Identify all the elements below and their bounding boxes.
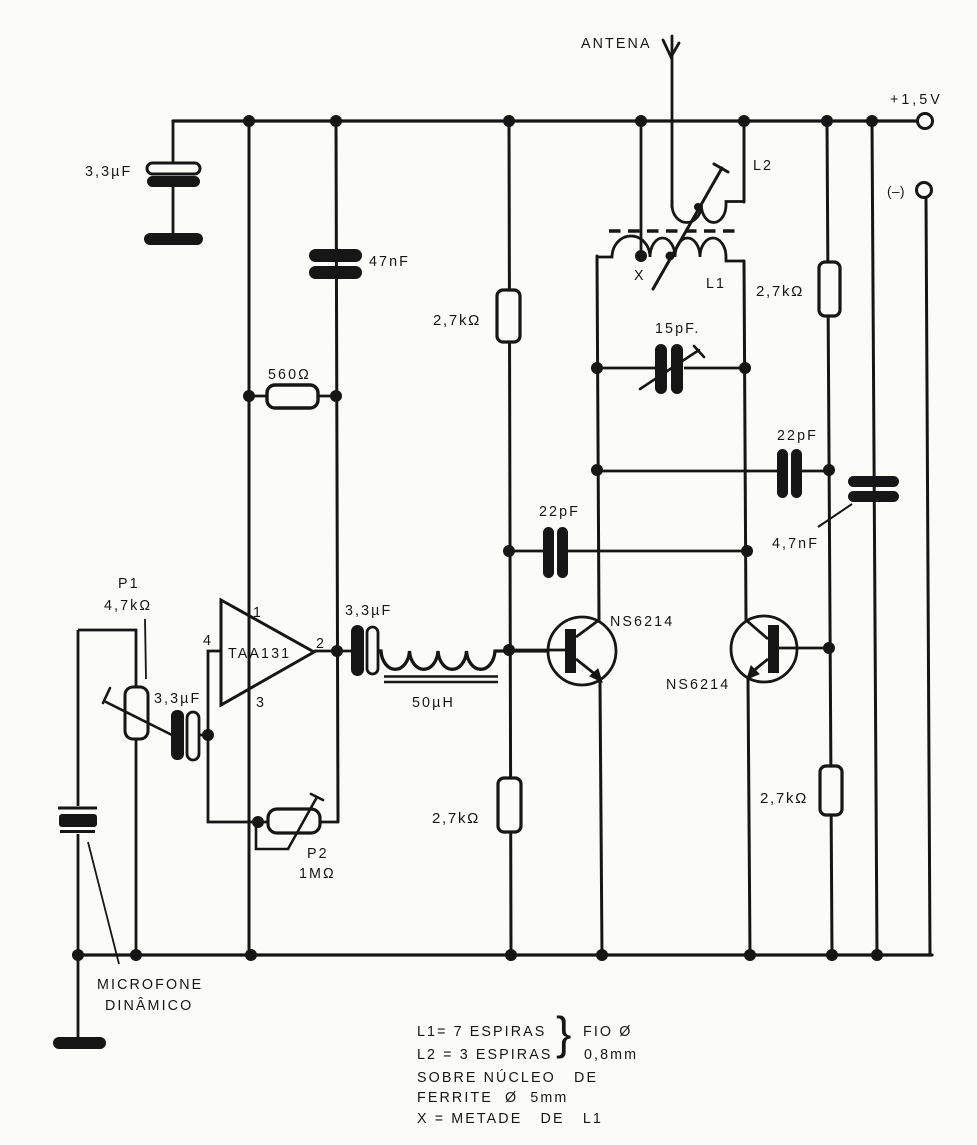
wire pin4	[208, 651, 268, 822]
junction tank bottom left	[591, 464, 603, 476]
svg-text:NS6214: NS6214	[610, 614, 674, 630]
capacitor 22pF left	[509, 504, 747, 578]
junction ground V3	[505, 949, 517, 961]
svg-text:4,7kΩ: 4,7kΩ	[104, 598, 152, 614]
svg-text:L1: L1	[706, 276, 726, 292]
junction ground P1	[130, 949, 142, 961]
wire Q2 emitter down	[748, 680, 750, 955]
junction 22pF-left out	[741, 545, 753, 557]
svg-text:22pF: 22pF	[539, 504, 580, 520]
junction C4 pin4	[202, 729, 214, 741]
wire bottom rail	[78, 953, 932, 956]
svg-text:FERRITE Ø 5mm: FERRITE Ø 5mm	[417, 1090, 568, 1106]
antenna	[663, 36, 679, 207]
svg-text:}: }	[556, 1007, 571, 1059]
wire V4 L1 left / Q1 collector	[597, 256, 599, 621]
op-amp TAA131	[203, 600, 326, 711]
microphone	[53, 630, 203, 1049]
svg-text:FIO Ø: FIO Ø	[583, 1024, 632, 1040]
svg-text:1MΩ: 1MΩ	[299, 866, 336, 882]
wire tank bottom	[597, 470, 829, 473]
junction 22pF-left in	[503, 545, 515, 557]
svg-text:2,7kΩ: 2,7kΩ	[760, 790, 808, 807]
junction 22pF-right out	[823, 464, 835, 476]
wire V7 4.7nF branch	[872, 121, 877, 955]
svg-text:2,7kΩ: 2,7kΩ	[756, 283, 804, 300]
junction ground V6	[826, 949, 838, 961]
wire V5 L1 right / Q2 collector	[744, 261, 746, 620]
transistor Q1 NS6214	[509, 614, 674, 685]
junction ground V7	[871, 949, 883, 961]
junction Q2 base	[823, 642, 835, 654]
terminal (-)	[887, 183, 932, 200]
resistor 2.7k upper-left	[433, 290, 520, 342]
junction blob on L1	[666, 252, 675, 261]
svg-text:560Ω: 560Ω	[268, 367, 311, 383]
svg-text:(–): (–)	[887, 184, 905, 199]
junction Q1 base	[503, 644, 515, 656]
svg-text:4,7nF: 4,7nF	[772, 536, 819, 552]
wire Q1 emitter down	[600, 682, 602, 955]
svg-text:50µH: 50µH	[412, 695, 455, 711]
junction ground Q1e	[596, 949, 608, 961]
svg-text:1: 1	[253, 605, 263, 621]
junction 560R right	[330, 390, 342, 402]
terminal +1.5V	[890, 92, 943, 129]
svg-text:ANTENA: ANTENA	[581, 36, 652, 52]
junction rail-V1	[243, 115, 255, 127]
resistor 2.7k lower-left	[432, 778, 521, 832]
svg-text:L2 = 3 ESPIRAS: L2 = 3 ESPIRAS	[417, 1047, 553, 1063]
resistor 2.7k lower-right	[760, 766, 842, 815]
dashed core line	[609, 229, 740, 232]
inductor 50uH	[378, 651, 565, 711]
capacitor 3.3uF at pin4	[154, 691, 208, 760]
svg-text:X = METADE DE L1: X = METADE DE L1	[417, 1111, 603, 1127]
inductor L1	[596, 236, 744, 261]
capacitor 22pF right	[777, 428, 818, 498]
wire V2 47nF/560/pin2 vertical	[336, 121, 338, 822]
capacitor 15pF trimmer	[597, 321, 745, 394]
ground blob	[53, 1037, 106, 1049]
svg-text:3,3µF: 3,3µF	[85, 164, 132, 180]
junction ground V1	[245, 949, 257, 961]
svg-text:P1: P1	[118, 576, 140, 592]
capacitor 47nF	[309, 249, 410, 279]
tuning slug arrow	[653, 164, 728, 289]
resistor 560R	[249, 367, 336, 408]
capacitor 3.3uF top-left	[85, 121, 203, 245]
junction rail-V6	[821, 115, 833, 127]
inductor L2	[672, 200, 744, 223]
svg-text:3,3µF: 3,3µF	[345, 603, 392, 619]
svg-text:SOBRE NÚCLEO DE: SOBRE NÚCLEO DE	[417, 1069, 598, 1086]
svg-text:2,7kΩ: 2,7kΩ	[432, 810, 480, 827]
svg-text:3: 3	[256, 695, 266, 711]
transistor Q2 NS6214	[666, 616, 829, 693]
node pin2 output	[331, 645, 343, 657]
svg-text:15pF.: 15pF.	[655, 321, 700, 337]
svg-text:NS6214: NS6214	[666, 677, 730, 693]
junction rail-V7	[866, 115, 878, 127]
junction tank right 15pF	[739, 362, 751, 374]
wire pin2 out	[314, 650, 351, 653]
wire V1 long vertical pins1-3	[248, 121, 251, 955]
capacitor 4.7nF	[772, 476, 899, 552]
svg-text:X: X	[634, 268, 646, 284]
junction ground mic	[72, 949, 84, 961]
svg-text:22pF: 22pF	[777, 428, 818, 444]
svg-text:DINÂMICO: DINÂMICO	[105, 997, 193, 1014]
svg-text:MICROFONE: MICROFONE	[97, 977, 203, 993]
svg-text:47nF: 47nF	[369, 254, 410, 270]
svg-text:+1,5V: +1,5V	[890, 92, 943, 108]
wire V3 Q1-branch vertical	[509, 121, 511, 955]
resistor 2.7k upper-right	[756, 262, 840, 316]
svg-text:0,8mm: 0,8mm	[584, 1047, 638, 1063]
wire top rail +1.5V	[173, 119, 917, 122]
junction 560R left	[243, 390, 255, 402]
coil notes text	[417, 1007, 638, 1127]
svg-text:P2: P2	[307, 846, 329, 862]
svg-text:2,7kΩ: 2,7kΩ	[433, 312, 481, 329]
node X tap	[635, 250, 647, 262]
svg-text:TAA131: TAA131	[228, 646, 291, 662]
potentiometer P1	[78, 576, 172, 955]
junction P2 left	[252, 816, 264, 828]
junction ground Q2e	[744, 949, 756, 961]
wire minus terminal down	[926, 198, 930, 955]
svg-text:L1= 7 ESPIRAS: L1= 7 ESPIRAS	[417, 1024, 546, 1040]
junction tank left 15pF	[591, 362, 603, 374]
junction rail-L2	[738, 115, 750, 127]
junction blob on L2	[694, 203, 702, 211]
svg-text:4: 4	[203, 633, 213, 649]
capacitor 3.3uF output	[345, 603, 392, 676]
potentiometer P2	[256, 794, 338, 882]
junction rail-V2	[330, 115, 342, 127]
wire V5 L2 right arm	[743, 121, 746, 202]
junction rail-Xtap	[635, 115, 647, 127]
wire V6 right 2.7k branch	[827, 121, 832, 955]
svg-text:3,3µF: 3,3µF	[154, 691, 201, 707]
junction rail-V3	[503, 115, 515, 127]
svg-text:L2: L2	[753, 158, 773, 174]
wire X tap	[640, 121, 643, 256]
